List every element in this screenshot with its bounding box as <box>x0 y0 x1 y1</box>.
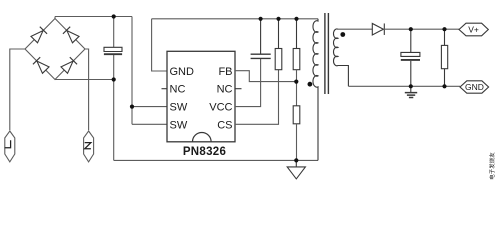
node C3 top junction <box>409 27 413 31</box>
capacitor C3 <box>410 29 412 86</box>
wire L input <box>10 49 25 130</box>
node FB R2 junction <box>294 80 298 84</box>
svg-text:V+: V+ <box>468 25 479 35</box>
node R4 top junction <box>442 27 446 31</box>
wire C1 branch <box>113 17 115 161</box>
svg-text:PN8326: PN8326 <box>183 146 226 158</box>
diode D2 top-right <box>63 27 79 43</box>
terminal V+ <box>459 23 488 36</box>
node rail C2 junction <box>259 17 263 21</box>
svg-text:CS: CS <box>217 119 232 131</box>
pin NC right stub <box>235 88 242 90</box>
earth ground <box>410 86 412 92</box>
terminal N <box>84 131 94 162</box>
wire VCC pin <box>235 59 261 107</box>
diode D4 bottom-right <box>61 57 77 73</box>
wire CS pin <box>235 70 279 125</box>
resistor R3 <box>293 106 300 124</box>
transformer T1 primary <box>313 19 318 161</box>
wire FB pin <box>235 71 296 82</box>
wire left top rail <box>55 16 132 18</box>
capacitor C2 <box>260 19 262 54</box>
wire output positive <box>383 28 459 30</box>
node rail R1 junction <box>276 17 280 21</box>
node rail R2 junction <box>294 17 298 21</box>
terminal GND <box>460 81 489 93</box>
svg-text:SW: SW <box>170 119 188 131</box>
node secondary polarity dot <box>340 32 345 37</box>
wire bridge negative <box>55 79 114 81</box>
wire SW branch <box>131 17 133 125</box>
node SW junction <box>130 105 134 109</box>
svg-text:NC: NC <box>170 84 186 96</box>
diode D5 output <box>372 23 383 35</box>
node rail C1 junction <box>112 14 116 18</box>
wire bottom rail <box>114 159 318 161</box>
wire R2 to R3 <box>296 70 298 106</box>
wire bridge top stub <box>54 17 56 19</box>
label N <box>85 143 91 149</box>
wire N input <box>85 49 89 130</box>
svg-text:GND: GND <box>170 66 195 78</box>
wire SW pin1 <box>132 106 167 108</box>
node C3 bottom junction <box>409 84 413 88</box>
resistor R1 <box>278 19 280 49</box>
bridge rectifier BR1 diamond <box>25 19 85 80</box>
wire GND pin <box>152 19 167 71</box>
terminal L <box>5 131 15 162</box>
capacitor C1 <box>104 47 122 51</box>
node ground junction <box>294 158 298 162</box>
IC U1 PN8326 <box>167 51 235 142</box>
svg-text:FB: FB <box>218 66 232 78</box>
svg-text:SW: SW <box>170 102 188 114</box>
node R4 bottom junction <box>442 84 446 88</box>
transformer T1 secondary <box>333 29 348 86</box>
node bridge negative junction <box>112 77 116 81</box>
wire SW pin2 <box>132 123 167 125</box>
svg-text:电子发烧友: 电子发烧友 <box>488 152 496 180</box>
pin NC left stub <box>162 88 168 90</box>
wire secondary top <box>338 28 372 30</box>
svg-text:GND: GND <box>465 82 484 92</box>
resistor R2 <box>296 19 298 49</box>
transformer T1 core <box>325 13 329 94</box>
svg-text:NC: NC <box>217 84 233 96</box>
diode D3 bottom-left <box>33 57 49 73</box>
diode D1 top-left <box>31 27 47 43</box>
node primary polarity dot <box>308 82 313 87</box>
wire R3 to bottom rail <box>296 124 298 161</box>
wire right top rail <box>152 18 318 20</box>
ground symbol <box>287 160 305 179</box>
svg-text:VCC: VCC <box>209 102 232 114</box>
wire output negative <box>348 85 460 87</box>
label L <box>5 140 11 147</box>
resistor R4 <box>444 29 446 86</box>
